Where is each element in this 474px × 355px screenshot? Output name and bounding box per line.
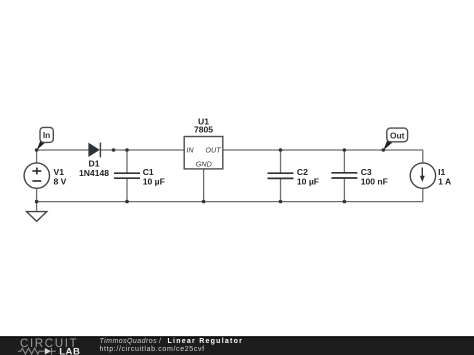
regulator U1 bbox=[184, 117, 223, 169]
svg-text:7805: 7805 bbox=[194, 124, 213, 134]
svg-text:C2: C2 bbox=[297, 167, 308, 177]
svg-text:Out: Out bbox=[390, 130, 405, 140]
ground bbox=[27, 212, 47, 222]
wire C2 bottom lead bbox=[280, 178, 282, 201]
svg-text:IN: IN bbox=[186, 145, 194, 154]
wire C1 bottom lead bbox=[126, 178, 128, 201]
wire C3 top lead bbox=[343, 150, 345, 173]
V1 minus sign bbox=[32, 180, 41, 182]
wire C2 top lead bbox=[280, 150, 282, 173]
flag Out bbox=[383, 128, 407, 150]
voltage source V1 bbox=[24, 163, 67, 188]
wire bottom rail bbox=[37, 201, 424, 203]
wire right vertical to I1 bbox=[422, 150, 424, 163]
node dot C3 top bbox=[343, 148, 347, 152]
svg-text:C1: C1 bbox=[143, 167, 154, 177]
logo resistor-diode glyph bbox=[18, 348, 56, 355]
flag In bbox=[37, 127, 54, 150]
svg-text:8 V: 8 V bbox=[54, 176, 67, 186]
svg-text:TimmosQuadros / Linear Regulat: TimmosQuadros / Linear Regulator bbox=[100, 338, 244, 345]
node dot C3 bottom bbox=[343, 200, 347, 204]
svg-text:LAB: LAB bbox=[59, 347, 80, 355]
wire diode to U1 IN bbox=[100, 149, 184, 151]
node dot C1 bottom bbox=[125, 200, 129, 204]
svg-text:V1: V1 bbox=[54, 167, 65, 177]
wire U1 GND lead bbox=[203, 169, 205, 202]
svg-text:GND: GND bbox=[196, 160, 212, 169]
svg-text:10 µF: 10 µF bbox=[143, 176, 165, 186]
current source I1 bbox=[410, 163, 451, 188]
wire top rail left (V1 to diode) bbox=[37, 149, 89, 151]
capacitor C3 bbox=[331, 167, 388, 187]
wire I1 bottom bbox=[422, 188, 424, 201]
capacitor C1 bbox=[114, 167, 165, 187]
node dot C1 top bbox=[125, 148, 129, 152]
footer bar bbox=[0, 336, 474, 355]
V1 plus sign bbox=[32, 170, 41, 172]
svg-text:OUT: OUT bbox=[205, 145, 221, 154]
wire V1 top lead bbox=[36, 150, 38, 163]
node dot Out flag bbox=[382, 148, 386, 152]
wire U1 OUT to right corner bbox=[223, 149, 423, 151]
svg-text:In: In bbox=[43, 130, 50, 140]
node dot In/V1 top bbox=[35, 148, 39, 152]
node dot C2 bottom bbox=[279, 200, 283, 204]
svg-text:1N4148: 1N4148 bbox=[79, 168, 109, 178]
svg-text:D1: D1 bbox=[89, 159, 100, 169]
capacitor C2 bbox=[268, 167, 320, 187]
node dot U1 GND bottom bbox=[202, 200, 206, 204]
node dot diode out bbox=[112, 148, 116, 152]
svg-text:100 nF: 100 nF bbox=[361, 176, 388, 186]
svg-text:10 µF: 10 µF bbox=[297, 176, 319, 186]
wire C1 top lead bbox=[126, 150, 128, 173]
wire V1 bottom lead bbox=[36, 188, 38, 201]
diode D1 bbox=[79, 143, 109, 178]
wire ground lead bbox=[36, 202, 38, 212]
node dot V1 bottom bbox=[35, 200, 39, 204]
svg-text:I1: I1 bbox=[438, 167, 445, 177]
wire C3 bottom lead bbox=[343, 178, 345, 202]
svg-text:1 A: 1 A bbox=[438, 176, 451, 186]
svg-text:C3: C3 bbox=[361, 167, 372, 177]
svg-text:http://circuitlab.com/ce25cvf: http://circuitlab.com/ce25cvf bbox=[100, 346, 205, 353]
node dot C2 top bbox=[279, 148, 283, 152]
